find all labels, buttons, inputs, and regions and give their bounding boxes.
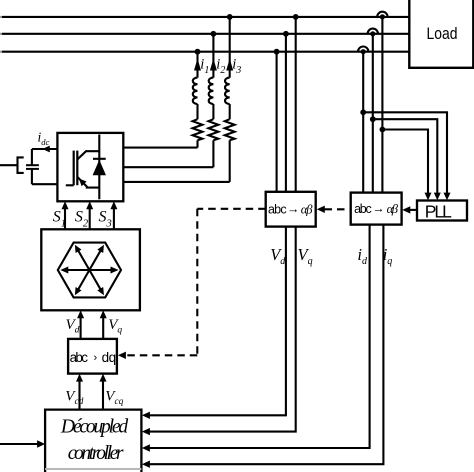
wire S3: [113, 208, 115, 230]
arrowhead Vcq into dq: [100, 374, 107, 382]
hexagon spoke up-left: [78, 250, 89, 270]
arrowhead i2 current: [210, 59, 217, 71]
SVM modulator box: [41, 229, 140, 310]
wire DC left vertical upper: [31, 149, 33, 165]
svg-text:abc: abc: [268, 203, 287, 217]
node hop on line 3 at tap x=363.2: [358, 47, 368, 52]
wire Vcq controller to dq: [102, 380, 104, 410]
DC source bracket: [18, 157, 24, 173]
svg-text:Load: Load: [427, 24, 458, 43]
wire PLL branch 3: [382, 130, 428, 195]
IGBT Q1 body bar: [76, 151, 78, 186]
dashed theta wire left of U2: [197, 208, 265, 210]
wire tap vertical from line1 to abc-ab2: [381, 17, 383, 193]
node dot branch1: [360, 109, 366, 115]
svg-text:→: →: [372, 201, 385, 215]
wire input c to U2: [295, 17, 297, 192]
arrowhead idc current: [42, 146, 50, 153]
wire S2: [89, 208, 91, 230]
hexagon spoke up-right: [89, 250, 100, 270]
arrowhead S2: [86, 201, 93, 209]
svg-text:Découpled: Découpled: [60, 417, 129, 438]
IGBT Q1 emitter: [77, 177, 99, 188]
svg-text:αβ: αβ: [387, 202, 399, 216]
svg-text:controller: controller: [68, 443, 124, 464]
branch A wire top: [196, 52, 198, 78]
node dot line3 x197.5: [195, 49, 201, 55]
abc-dq box U5: [68, 339, 117, 374]
controller box faded bottom edge: [45, 468, 141, 470]
wire bus phase line 2: [2, 33, 409, 35]
arrowhead i3 current: [226, 59, 233, 71]
wire controller left input: [0, 443, 39, 445]
wire AC output 1: [123, 147, 197, 149]
node dot line1 x295.7: [293, 14, 299, 20]
wire DC left vertical lower: [31, 169, 33, 184]
branch C wire mid: [229, 104, 231, 119]
arrowhead S3: [110, 201, 117, 209]
wire DC input: [0, 164, 18, 166]
wire PLL branch 2: [373, 119, 438, 194]
resistor R3: [225, 119, 235, 140]
inductor L3: [225, 78, 230, 104]
wire PLL branch 1: [363, 112, 447, 194]
arrowhead Vq into controller: [142, 428, 150, 435]
wire bus phase line 1: [2, 16, 409, 18]
node dot line1 x229.7: [227, 14, 233, 20]
node dot line1 x382.4: [380, 14, 385, 19]
svg-text:dq: dq: [102, 350, 117, 365]
abc-alphabeta box U3 (right): [351, 193, 402, 225]
arrowhead Vd into controller: [142, 412, 150, 419]
inverter box U1: [57, 133, 123, 201]
inductor L2: [209, 78, 214, 104]
arrowhead id into controller: [142, 444, 150, 451]
arrowhead controller left input: [37, 440, 45, 447]
wire Vq arrow dq to SVM: [102, 317, 104, 339]
arrowhead Vd into SVM: [77, 310, 84, 318]
hexagon spoke left: [67, 269, 90, 271]
wire DC top: [32, 148, 58, 150]
inductor L1: [193, 78, 198, 104]
node dot branch3: [380, 127, 386, 133]
svg-text:→: →: [287, 202, 300, 216]
node dot line2 x213.4: [211, 31, 217, 37]
node dot branch2: [370, 116, 376, 122]
branch A wire mid: [196, 104, 198, 119]
IGBT Q1 gate lead: [66, 184, 74, 186]
svg-text:αβ: αβ: [301, 203, 313, 217]
arrowhead PLL branch 2: [434, 193, 441, 201]
resistor R1: [193, 119, 203, 140]
abc-alphabeta box U2 (left): [266, 192, 316, 227]
branch B wire top: [212, 34, 214, 78]
wire input b to U2: [285, 34, 287, 192]
wire DC bottom: [32, 183, 58, 185]
arrowhead PLL branch 1: [444, 193, 451, 201]
branch B wire bottom: [212, 140, 214, 167]
arrowhead PLL branch 3: [425, 193, 432, 201]
node hop on line 1 at tap x=382.4: [377, 12, 387, 17]
diode D1 triangle: [93, 160, 106, 175]
capacitor C1 plate bottom: [26, 168, 39, 170]
arrowhead PLL to U3: [402, 206, 410, 213]
IGBT Q1 emitter arrow: [79, 179, 87, 187]
arrowhead S1: [62, 201, 69, 209]
dashed theta wire vertical: [196, 209, 198, 355]
node dot line2 x372.8: [370, 31, 375, 36]
arrowhead theta into U2: [317, 206, 325, 213]
diode D1 line: [98, 135, 100, 200]
arrowhead theta into dq box: [118, 352, 126, 359]
wire bus phase line 1 end nub: [0, 16, 2, 18]
hexagon spoke down-right: [89, 270, 100, 290]
wire Vd arrow dq to SVM: [80, 317, 82, 339]
decoupled controller box: [45, 410, 141, 472]
wire AC output 2: [123, 166, 213, 168]
arrowhead Vq into SVM: [100, 310, 107, 318]
svg-text:abc: abc: [354, 202, 372, 216]
node hop on line 2 at tap x=372.8: [368, 29, 378, 34]
PLL box U4: [417, 201, 467, 221]
wire Vd output vertical: [148, 227, 286, 416]
IGBT Q1 gate bar: [73, 151, 75, 186]
wire tap vertical from line2 to abc-ab2: [372, 34, 374, 193]
node dot line2 x285.9: [283, 31, 289, 37]
wire AC output 3: [123, 181, 229, 183]
Load box: [409, 0, 473, 68]
arrowhead Vcd into dq: [76, 374, 83, 382]
arrowhead i1 current: [194, 59, 201, 71]
wire S1: [64, 208, 66, 230]
diode D1 cathode bar: [93, 158, 106, 160]
branch C wire bottom: [229, 140, 231, 182]
branch C wire top: [229, 17, 231, 78]
hexagon arrowhead down-left: [75, 287, 82, 295]
hexagon arrowhead right: [111, 267, 119, 274]
hexagon arrowhead up-left: [75, 245, 82, 253]
wire PLL to U3: [409, 209, 417, 211]
wire tap vertical from line3 to abc-ab2: [362, 52, 364, 193]
capacitor C1 plate top: [26, 164, 39, 166]
IGBT Q1 collector: [77, 151, 99, 159]
branch B wire mid: [212, 104, 214, 119]
wire input a to U2: [276, 52, 278, 192]
svg-text:›: ›: [94, 352, 98, 364]
branch A wire bottom: [196, 140, 198, 147]
resistor R2: [209, 119, 219, 140]
node dot line3 x363.2: [361, 49, 366, 54]
wire bus phase line 3: [2, 51, 409, 53]
dashed theta wire between U2 and U3: [325, 208, 351, 210]
svg-text:abc: abc: [70, 350, 89, 365]
hexagon arrowhead left: [60, 267, 68, 274]
hexagon spoke right: [89, 269, 112, 271]
hexagon arrowhead up-right: [97, 245, 104, 253]
svg-text:PLL: PLL: [425, 201, 452, 221]
hexagon spoke down-left: [78, 270, 89, 290]
hexagon arrowhead down-right: [97, 287, 104, 295]
wire Vcd controller to dq: [78, 380, 80, 410]
wire iq output vertical: [148, 225, 383, 465]
arrowhead iq into controller: [142, 461, 150, 468]
dashed theta wire to dq box: [127, 354, 198, 356]
wire id output vertical: [148, 225, 370, 448]
hexagon: [58, 243, 121, 298]
node dot line3 x276.6: [274, 49, 280, 55]
wire Vq output vertical: [148, 227, 296, 432]
